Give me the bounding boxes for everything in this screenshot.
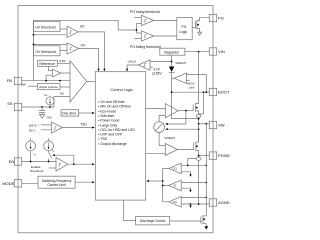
svg-text:30°C: 30°C — [29, 128, 37, 132]
svg-text:MODE: MODE — [2, 181, 14, 186]
node VREG5 — [171, 61, 173, 63]
pin FB — [7, 77, 22, 84]
node OCL low rail — [205, 197, 207, 199]
node PG comparator input junction — [136, 29, 138, 31]
wire PGND — [199, 155, 210, 157]
svg-text:Current Limit: Current Limit — [47, 183, 65, 187]
svg-text:PG falling threshold: PG falling threshold — [130, 45, 161, 49]
pin EN — [9, 158, 22, 165]
svg-text:• On and Off time: • On and Off time — [98, 100, 124, 104]
svg-text:GND: GND — [47, 117, 52, 119]
wire one shot to control logic — [79, 112, 93, 114]
op-amp mux — [52, 69, 60, 77]
svg-text:(3.65V: (3.65V — [152, 72, 162, 76]
wire LS drain to switch control — [166, 128, 198, 130]
wire TSD comparator inputs — [41, 125, 52, 130]
wire FB to PG comparators — [137, 24, 142, 34]
svg-text:UVLO: UVLO — [128, 60, 137, 64]
node SS capacitor branch — [41, 106, 43, 108]
driver high side — [165, 104, 178, 118]
svg-text:SS: SS — [45, 95, 48, 97]
wire comparator rail to control logic — [148, 180, 163, 182]
current sense LS — [196, 157, 201, 160]
node SS current source branch — [49, 106, 51, 108]
svg-text:OCL: OCL — [173, 169, 178, 171]
transistor LS — [194, 124, 199, 157]
comparator OCL low — [169, 196, 182, 207]
wire control logic to LS driver — [146, 152, 166, 154]
wire HS driver output to gate — [178, 110, 193, 112]
One Shot box — [61, 110, 79, 116]
comparator PG rising — [141, 15, 153, 25]
node LS drain switch branch — [198, 128, 200, 130]
switch Ih hysteresis — [49, 151, 52, 162]
comparator UV — [67, 26, 78, 37]
driver low side — [165, 144, 177, 156]
node EN Ih — [48, 161, 50, 163]
wire mux output — [61, 72, 70, 74]
svg-text:One Shot: One Shot — [62, 111, 76, 115]
svg-text:• TSD: • TSD — [98, 137, 107, 141]
node HS gate branch — [185, 110, 187, 112]
wire switch bottom to LS driver — [159, 133, 165, 146]
ground discharge transistor — [204, 226, 208, 229]
arrow switching frequency into control logic — [92, 181, 95, 183]
comparator ZC — [169, 180, 182, 191]
svg-text:PG rising threshold: PG rising threshold — [130, 10, 160, 14]
current source Ih — [44, 138, 54, 150]
wire OV threshold to comparator — [60, 50, 67, 52]
comparator HSOC — [174, 73, 187, 84]
current source Iss — [46, 96, 54, 107]
Regulator box — [160, 48, 185, 55]
svg-text:PGND: PGND — [218, 153, 230, 158]
wire HSOC bottom input stub — [187, 79, 191, 81]
node HS source boot return — [198, 118, 200, 120]
wire OCL high bottom input — [181, 172, 190, 175]
node OCL sense riser — [187, 164, 189, 166]
comparator UVLO — [138, 60, 150, 71]
wire ripple injection output — [60, 86, 70, 88]
node comparator rail mid — [162, 185, 164, 187]
svg-text:• OCL for HSD and LSD: • OCL for HSD and LSD — [98, 128, 135, 132]
svg-text:Reference: Reference — [39, 62, 55, 66]
node boot HSOC junction — [205, 91, 207, 93]
wire OCL low top input — [181, 196, 206, 198]
Reference box — [38, 60, 58, 66]
wire SS to PWM comparator — [54, 96, 70, 98]
wire ZC bottom input — [181, 188, 190, 190]
svg-text:Control Logic: Control Logic — [111, 88, 133, 92]
wire PG rising threshold stub — [134, 17, 141, 19]
arrow OCL high threshold — [189, 174, 191, 177]
arrow UVLO into control logic — [126, 69, 128, 72]
wire OV output to control logic — [79, 49, 99, 70]
pin BOOT — [209, 88, 230, 95]
wire switching frequency output — [75, 181, 93, 183]
wire OCL low bottom input to AGND — [181, 203, 209, 205]
svg-text:• Min On and Off time: • Min On and Off time — [98, 105, 131, 109]
wire ZC top input — [181, 181, 206, 183]
Control Logic box — [95, 72, 145, 200]
node OCL rail — [205, 164, 207, 166]
wire switch top to HS driver — [159, 115, 165, 121]
comparator TSD — [51, 122, 62, 133]
node EN feedback — [73, 163, 75, 165]
arrow switch control bottom — [165, 128, 168, 130]
wire PG falling threshold stub — [134, 38, 141, 40]
Discharge Control box — [136, 216, 170, 225]
node SW left — [198, 123, 200, 125]
svg-text:• Output discharge: • Output discharge — [98, 142, 126, 146]
svg-text:ZC: ZC — [173, 186, 176, 188]
wire MODE to box — [22, 182, 39, 184]
node PGND — [198, 155, 200, 157]
wire UV threshold to comparator — [60, 28, 67, 30]
node boot jog junction — [203, 91, 205, 93]
svg-text:PG: PG — [218, 16, 224, 21]
svg-text:OCL: OCL — [173, 202, 178, 204]
svg-text:SW: SW — [218, 123, 225, 128]
wire EN output to control logic — [68, 163, 93, 165]
svg-text:PG: PG — [182, 25, 187, 29]
svg-text:• UVP and OVP: • UVP and OVP — [98, 133, 123, 137]
node SW sense branch — [205, 123, 207, 125]
arrow TSD — [92, 126, 95, 128]
pin SS — [7, 101, 22, 111]
wire comparator output rail — [163, 168, 169, 201]
wire FB rail up left — [34, 20, 137, 80]
node OCL low threshold branch — [190, 203, 192, 205]
diode bootstrap — [169, 67, 174, 73]
arrow switch control top — [165, 123, 168, 125]
wire discharge control to gate — [170, 220, 202, 222]
svg-text:Ripple Injection: Ripple Injection — [40, 85, 59, 89]
wire SW sense rail — [205, 124, 207, 212]
wire UV comparator plus input — [34, 34, 68, 36]
current sense HS — [196, 115, 200, 118]
wire FB — [22, 80, 71, 82]
wire reference to mux top input — [48, 66, 52, 70]
wire HS sense to SW — [198, 117, 200, 141]
wire control logic to discharge control — [124, 200, 136, 221]
node FB rail to OV — [33, 44, 35, 46]
svg-text:165°C /: 165°C / — [29, 124, 39, 128]
svg-text:VREG5: VREG5 — [164, 136, 175, 140]
wire control logic to HS driver — [146, 108, 166, 110]
transistor discharge — [201, 212, 206, 226]
wire UVLO top input from VREG5 — [150, 61, 172, 63]
wire UVLO output to control logic — [127, 65, 138, 69]
svg-text:FB: FB — [7, 78, 12, 83]
wire VIN to regulator — [185, 51, 209, 53]
wire OCL high top input — [181, 164, 206, 166]
node VIN to HS drain — [198, 51, 200, 53]
wire LS sense rail down — [198, 160, 200, 204]
svg-text:UV threshold: UV threshold — [35, 25, 55, 29]
wire SS pin net — [22, 97, 54, 108]
node comparator rail branch — [162, 180, 164, 182]
wire reference output to PWM comparator — [57, 62, 70, 64]
IC outline — [18, 6, 213, 233]
wire HSOC output — [172, 77, 174, 79]
svg-text:• Power Good: • Power Good — [98, 119, 119, 123]
switch bootstrap VREG5 — [154, 122, 165, 133]
pin PGND — [209, 152, 229, 159]
current source Ip — [26, 138, 36, 161]
comparator OCL high — [169, 163, 182, 174]
wire EN hysteresis feedback — [53, 155, 74, 164]
wire enable threshold stub — [49, 167, 56, 169]
pin AGND — [209, 199, 229, 206]
pin MODE — [2, 180, 22, 187]
svg-text:0.8V: 0.8V — [59, 59, 66, 63]
node AGND sense — [198, 203, 200, 205]
svg-text:Discharge Control: Discharge Control — [140, 219, 166, 223]
svg-text:• Large Duty: • Large Duty — [98, 123, 117, 127]
arrow one shot — [92, 112, 95, 114]
svg-text:SS: SS — [60, 92, 64, 96]
UV threshold box — [34, 21, 61, 31]
svg-text:Limit: Limit — [189, 85, 195, 89]
node FB mux branch — [45, 80, 47, 82]
wire SW to ripple injection — [28, 85, 37, 87]
pin VIN — [209, 48, 225, 55]
transistor HS — [193, 52, 198, 115]
arrow EN into control logic — [92, 163, 95, 165]
wire PG logic to PG transistor gate — [192, 26, 195, 28]
svg-text:EN: EN — [9, 159, 15, 164]
wire VREG5 rail with diode — [172, 55, 199, 118]
svg-text:UV: UV — [80, 25, 85, 29]
svg-text:• Eco-mode: • Eco-mode — [98, 109, 116, 113]
wire OV comparator plus input — [34, 43, 68, 45]
capacitor SS — [39, 107, 45, 114]
wire PG rising output — [154, 20, 177, 22]
node FB — [59, 80, 61, 82]
comparator EN — [56, 158, 68, 172]
wire UV output to control logic — [78, 32, 104, 69]
svg-text:P: P — [35, 155, 37, 157]
wire EN — [22, 161, 57, 163]
svg-text:• Soft-start: • Soft-start — [98, 114, 114, 118]
wire BOOT — [172, 91, 210, 93]
wire HS gate to switch control — [166, 111, 186, 124]
wire UVLO bottom input from VIN rail — [150, 66, 153, 68]
comparator PG falling — [141, 31, 153, 41]
pin SW — [209, 121, 224, 128]
wire riser to PGND — [188, 159, 197, 166]
arrow OCL low threshold — [190, 204, 192, 206]
arrow OV into control logic — [97, 69, 99, 72]
svg-text:Regulator: Regulator — [164, 51, 180, 55]
arrow comparators to control logic — [146, 180, 149, 182]
arrow EN feedback to switch — [52, 154, 55, 156]
node ZC rail — [205, 182, 207, 184]
pin PG — [209, 14, 224, 21]
Switching Frequency Current Limit box — [38, 176, 75, 188]
svg-text:AGND: AGND — [218, 200, 230, 205]
wire PWM output to control logic — [87, 80, 96, 82]
wire boot to HS source — [199, 92, 204, 114]
node EN Ip — [30, 161, 32, 163]
wire PG falling output — [154, 35, 177, 37]
svg-text:OV: OV — [81, 44, 86, 48]
OV threshold box — [34, 46, 61, 56]
svg-text:h: h — [53, 151, 54, 153]
PG Logic box — [177, 18, 192, 40]
svg-text:SS: SS — [7, 101, 13, 106]
wire mux bottom input from FB — [46, 75, 52, 81]
svg-text:Logic: Logic — [179, 30, 187, 34]
svg-text:HSOC: HSOC — [187, 82, 195, 86]
ground PG transistor — [198, 32, 202, 35]
comparator OV — [67, 43, 79, 54]
svg-text:TSD: TSD — [80, 122, 87, 126]
comparator main PWM — [70, 61, 87, 102]
svg-text:BOOT: BOOT — [218, 90, 230, 95]
node FB rail to UV — [33, 34, 35, 36]
Ripple Injection box — [37, 84, 60, 90]
arrow UV into control logic — [103, 69, 105, 72]
wire TSD output to control logic — [62, 127, 93, 129]
svg-text:VREG5: VREG5 — [175, 61, 186, 65]
arrow ZC threshold — [189, 190, 191, 193]
svg-text:Threshold: Threshold — [30, 169, 44, 173]
ground SS capacitor — [39, 114, 44, 118]
svg-text:OV threshold: OV threshold — [35, 50, 55, 54]
svg-text:VIN: VIN — [218, 49, 225, 54]
wire HSOC top input — [187, 75, 207, 93]
transistor PG open drain — [196, 17, 210, 32]
node boot diode junction — [171, 91, 173, 93]
wire LS driver output to gate — [178, 149, 194, 151]
wire SW — [199, 123, 210, 125]
